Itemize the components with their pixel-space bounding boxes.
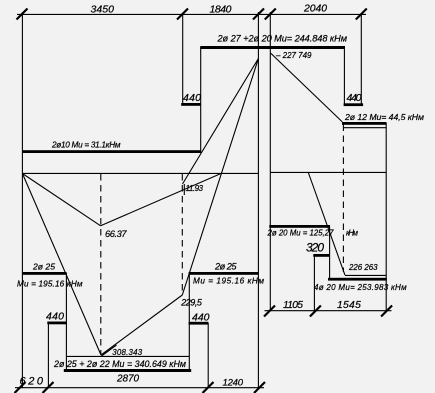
bar 2d20 right — [269, 225, 330, 228]
svg-text:2ø 25: 2ø 25 — [32, 262, 55, 272]
support vertical x258.4 — [257, 12, 259, 388]
svg-text:2ø 25 + 2ø 22 Mu = 340.649 кНм: 2ø 25 + 2ø 22 Mu = 340.649 кНм — [53, 359, 186, 369]
leader 308.343 — [102, 345, 117, 356]
extension vertical x314.5 — [313, 256, 315, 312]
svg-text:3450: 3450 — [91, 3, 115, 15]
zero line left span — [22, 172, 258, 174]
demand line right top — [344, 127, 386, 129]
bottom-right dimension line — [265, 310, 392, 312]
svg-text:440: 440 — [46, 311, 64, 323]
right edge vertical x386 — [385, 123, 387, 311]
bar 440 bottom-right — [189, 322, 209, 325]
tick bright x315.4 — [310, 306, 321, 317]
leader tick 11.93 — [183, 184, 185, 195]
tick bottom x48 — [43, 382, 54, 393]
zero line right span — [270, 171, 386, 173]
svg-text:2ø 27 +2ø 20 Mu= 244.848 кНм: 2ø 27 +2ø 20 Mu= 244.848 кНм — [217, 33, 348, 43]
extension vertical x182.7 to 440 bar — [182, 14, 184, 104]
bottom-left dimension line — [15, 387, 264, 389]
svg-text:2ø 25: 2ø 25 — [214, 262, 237, 272]
moment line b1 — [22, 174, 100, 226]
step vertical x189.3 — [188, 273, 190, 370]
tick bright x269.5 — [264, 306, 275, 317]
extension vertical x48 — [47, 323, 49, 388]
bar 320 — [313, 254, 330, 257]
svg-text:кНм: кНм — [346, 229, 359, 238]
svg-text:1240: 1240 — [223, 378, 244, 389]
dashed vertical x345 — [342, 125, 344, 273]
tick top x270 — [265, 9, 276, 20]
svg-text:4ø 20 Mu= 253.983 кНм: 4ø 20 Mu= 253.983 кНм — [314, 283, 407, 292]
extension vertical x361.3 to 440 bar — [360, 14, 362, 105]
tick top x361 — [356, 9, 367, 20]
top dimension line — [17, 13, 366, 15]
bar 440 top-right — [344, 103, 364, 106]
moment line R2 — [308, 173, 345, 275]
step vertical x66.5 — [65, 273, 67, 370]
dashed vertical x100.8 — [100, 174, 102, 354]
bar top 2d27+2d20 — [200, 46, 345, 49]
plateau 226.263 — [345, 274, 386, 276]
extension vertical x208.2 — [207, 323, 209, 388]
cutoff vertical x344.4 top bar to 440 bar — [343, 47, 345, 105]
moment line P1b — [101, 295, 182, 355]
tick bottom x259.5 — [254, 382, 265, 393]
svg-text:1840: 1840 — [210, 3, 232, 15]
svg-text:2ø 20 Mu = 125,27: 2ø 20 Mu = 125,27 — [267, 229, 335, 238]
bar 2d12 — [342, 122, 387, 125]
svg-text:229,5: 229,5 — [180, 297, 203, 307]
svg-text:2870: 2870 — [116, 374, 139, 385]
moment line b2 — [101, 174, 221, 226]
bar 2d25 left — [22, 272, 66, 275]
tick top x258 — [253, 9, 264, 20]
tick bright x386.6 — [381, 306, 392, 317]
svg-text:440: 440 — [183, 92, 201, 104]
svg-text:Mu = 195.16 кНм: Mu = 195.16 кНм — [17, 280, 83, 289]
svg-text:308.343: 308.343 — [112, 348, 143, 357]
moment line c — [183, 59, 259, 185]
bar 440 bottom-left — [47, 322, 67, 325]
svg-text:440: 440 — [192, 312, 210, 324]
svg-text:226 263: 226 263 — [348, 263, 378, 272]
svg-text:Mu = 195.16 кНм: Mu = 195.16 кНм — [193, 277, 264, 286]
svg-text:440: 440 — [347, 92, 362, 104]
cutoff vertical x329.6 — [329, 227, 331, 280]
svg-text:2ø 12 Mu= 44,5 кНм: 2ø 12 Mu= 44,5 кНм — [344, 112, 424, 122]
svg-text:66.37: 66.37 — [105, 229, 127, 239]
bar bottom 2d25+2d22 — [64, 369, 191, 372]
svg-text:2ø10 Mu = 31.1кНм: 2ø10 Mu = 31.1кНм — [51, 140, 121, 149]
tick top x182 — [177, 9, 188, 20]
moment line P1a — [22, 174, 101, 356]
svg-text:620: 620 — [20, 375, 44, 387]
bar 2d25 right — [189, 272, 259, 275]
support vertical x270.3 — [269, 12, 271, 311]
svg-text:11.93: 11.93 — [186, 184, 204, 193]
tick bottom x20 — [15, 382, 26, 393]
svg-text:2040: 2040 — [303, 4, 327, 15]
moment line P1c — [182, 59, 258, 296]
svg-text:1545: 1545 — [337, 300, 361, 311]
bar 4d20 — [328, 278, 387, 281]
left support vertical x22.4 — [21, 12, 23, 388]
moment line R1 — [271, 53, 343, 122]
tick top x22 — [17, 9, 28, 20]
dashed vertical x182.3 — [181, 174, 183, 293]
cutoff vertical x200.7 top bar to 2d10 bar — [200, 47, 202, 153]
svg-text:– 227 749: – 227 749 — [275, 51, 312, 60]
bar 2d10 — [22, 150, 201, 153]
tick bottom x208 — [203, 382, 214, 393]
label box top line — [66, 355, 189, 357]
bar 440 top-left — [181, 103, 201, 106]
svg-text:1105: 1105 — [283, 300, 303, 311]
svg-text:320: 320 — [306, 241, 324, 255]
